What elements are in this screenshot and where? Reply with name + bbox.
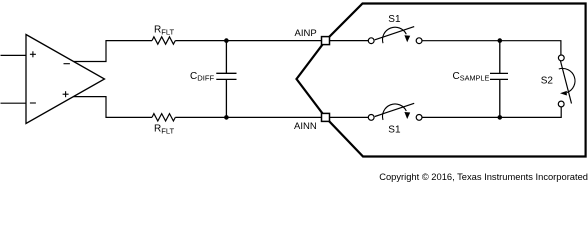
svg-text:AINP: AINP [295, 28, 317, 39]
node junction bottom CSAMPLE [498, 115, 503, 120]
node junction bottom CDIFF [224, 115, 229, 120]
op-amp output minus label [64, 63, 70, 65]
resistor RFLT top [152, 37, 175, 44]
op-amp input minus label [30, 102, 36, 104]
svg-text:Copyright © 2016, Texas Instru: Copyright © 2016, Texas Instruments Inco… [379, 172, 588, 182]
svg-text:RFLT: RFLT [154, 25, 175, 37]
op-amp U1 [26, 35, 105, 124]
wire AINN pin to S1 [330, 116, 369, 118]
pin AINP [322, 37, 330, 45]
wire top rail RFLT to AINP [175, 40, 321, 42]
wire AINP pin to S1 [330, 40, 369, 42]
wire S1 bottom to S2 [422, 107, 561, 117]
ADC package outline [297, 4, 586, 157]
switch S1 top [368, 27, 422, 44]
svg-text:AINN: AINN [294, 121, 317, 132]
node junction top CDIFF [224, 38, 229, 43]
wire op-amp bottom output to bottom rail [73, 97, 152, 118]
wire input top [1, 54, 27, 56]
svg-text:RFLT: RFLT [154, 124, 175, 136]
pin AINN [322, 113, 330, 121]
wire S1 top to S2 [422, 41, 561, 55]
svg-text:CDIFF: CDIFF [190, 71, 214, 83]
op-amp input plus label [30, 51, 36, 57]
switch S1 bottom [368, 103, 422, 120]
op-amp output plus label [63, 91, 69, 97]
svg-text:S1: S1 [388, 14, 401, 25]
capacitor CDIFF [216, 41, 236, 118]
svg-text:S2: S2 [541, 76, 554, 87]
wire bottom rail RFLT to AINN [175, 116, 321, 118]
switch S2 [558, 55, 575, 107]
wire input bottom [1, 102, 27, 104]
svg-text:CSAMPLE: CSAMPLE [453, 71, 490, 83]
svg-text:S1: S1 [388, 125, 401, 136]
node junction top CSAMPLE [498, 38, 503, 43]
resistor RFLT bottom [152, 114, 175, 121]
wire op-amp top output to top rail [74, 41, 152, 62]
capacitor CSAMPLE [490, 41, 508, 118]
